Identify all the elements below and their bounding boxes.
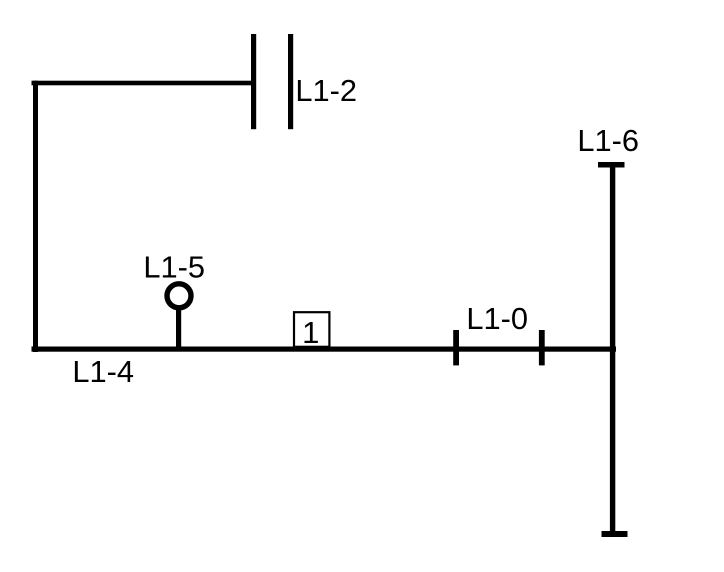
wire top horizontal: [32, 81, 252, 86]
box node 1: [294, 312, 329, 347]
svg-text:L1-5: L1-5: [143, 250, 205, 285]
capacitor L1-2 left plate: [251, 34, 256, 129]
tick left L1-0: [453, 330, 459, 365]
svg-text:L1-0: L1-0: [466, 301, 528, 336]
wire L1-5 stub: [176, 307, 181, 349]
svg-text:L1-4: L1-4: [72, 354, 134, 389]
svg-text:L1-6: L1-6: [577, 123, 639, 158]
tick right L1-0: [539, 330, 545, 365]
svg-text:1: 1: [302, 315, 319, 350]
svg-text:L1-2: L1-2: [295, 73, 357, 108]
line L1-6 top cap: [598, 162, 625, 168]
wire bus L1-4: [32, 347, 617, 352]
line L1-6 bottom cap: [602, 531, 628, 537]
node L1-5 circle: [167, 284, 191, 308]
wire left vertical: [33, 81, 38, 352]
line L1-6 vertical: [610, 162, 615, 537]
capacitor L1-2 right plate: [288, 34, 293, 129]
